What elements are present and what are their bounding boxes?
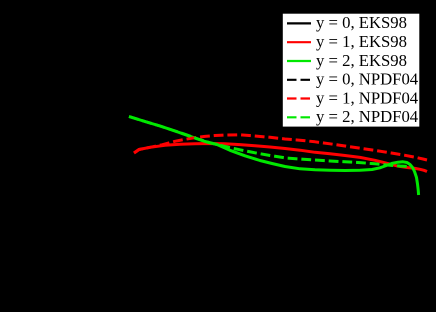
curve y=1 NPDF04 (red dashed) xyxy=(134,135,427,160)
svg-text:y = 0, EKS98: y = 0, EKS98 xyxy=(316,13,407,32)
legend line y=1 EKS98 (red solid) xyxy=(287,41,311,43)
curve y=2 EKS98 (green solid) xyxy=(129,117,419,196)
svg-text:y = 1, EKS98: y = 1, EKS98 xyxy=(316,32,407,51)
legend line y=0 NPDF04 (black dashed) xyxy=(287,79,314,81)
svg-text:y = 2, EKS98: y = 2, EKS98 xyxy=(316,51,407,70)
legend box xyxy=(283,14,420,127)
legend line y=1 NPDF04 (red dashed) xyxy=(287,97,314,99)
svg-text:y = 1, NPDF04: y = 1, NPDF04 xyxy=(316,88,419,107)
legend line y=2 NPDF04 (green dashed) xyxy=(287,116,314,118)
curve y=2 NPDF04 (green dashed) xyxy=(129,117,408,167)
curve y=1 EKS98 (red solid) xyxy=(134,144,427,172)
svg-text:y = 0, NPDF04: y = 0, NPDF04 xyxy=(316,70,419,89)
legend line y=2 EKS98 (green solid) xyxy=(287,60,311,62)
legend line y=0 EKS98 (black solid) xyxy=(287,22,311,24)
svg-text:y = 2, NPDF04: y = 2, NPDF04 xyxy=(316,107,419,126)
